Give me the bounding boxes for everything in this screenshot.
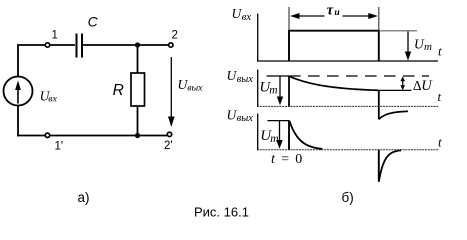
U_out arrow circuit (168, 57, 175, 127)
svg-text:R: R (113, 82, 124, 99)
wf2 vertical axis (257, 70, 259, 108)
svg-text:вых: вых (187, 83, 203, 94)
wf3 recovery curve (379, 150, 401, 181)
wf2 decay curve (289, 76, 379, 90)
resistor R body (131, 73, 145, 106)
wf2 rise edge (288, 76, 290, 106)
capacitor C plates (77, 34, 83, 58)
wf2 recovery curve (379, 111, 408, 119)
wf1 gray top level line (380, 30, 417, 32)
wf2 U_m top bar (267, 75, 290, 77)
svg-text:t: t (438, 43, 442, 58)
wf1 fall extension line (378, 7, 380, 30)
svg-text:вых: вых (237, 113, 253, 124)
svg-text:2': 2' (164, 140, 173, 152)
wf2 U_m arrow (277, 76, 283, 105)
svg-text:U: U (421, 78, 433, 94)
svg-text:1: 1 (52, 30, 58, 42)
node 1' terminal (45, 133, 49, 137)
wire bottom horizontal (17, 135, 167, 137)
svg-text:вых: вых (237, 74, 253, 85)
svg-text:t: t (438, 89, 442, 104)
junction dot top (135, 42, 140, 47)
svg-text:вх: вх (48, 94, 57, 105)
voltage source U1 circle (4, 77, 33, 106)
svg-text:m: m (269, 85, 277, 97)
svg-text:1': 1' (55, 141, 64, 153)
junction dot bottom (135, 133, 140, 138)
svg-text:вх: вх (242, 12, 252, 23)
wf3 horizontal axis dotted (257, 149, 439, 151)
node 1 terminal (45, 43, 49, 47)
wf1 U_m arrow (405, 32, 411, 61)
wf2 dashed peak level line (289, 75, 429, 77)
tau arrow right (343, 13, 378, 19)
wire resistor top lead (137, 45, 139, 73)
tau arrow left (290, 13, 325, 19)
svg-text:m: m (424, 41, 432, 53)
voltage source arrow (15, 81, 21, 104)
wf3 U_m arrow (276, 121, 282, 149)
wire top right horizontal (83, 44, 169, 46)
wf3 rise edge (288, 121, 290, 150)
wf3 U_m top bar (268, 120, 290, 122)
node 2' terminal (167, 132, 171, 136)
wire left vertical bottom (17, 106, 19, 137)
svg-text:2: 2 (172, 30, 178, 42)
svg-text:и: и (334, 8, 339, 18)
wf2 drop edge (378, 90, 380, 119)
wire left vertical top (17, 45, 19, 77)
wire resistor bottom lead (137, 106, 139, 136)
wf1 rise extension line (288, 7, 290, 30)
wf1 horizontal axis (257, 60, 438, 62)
svg-text:t: t (438, 135, 442, 150)
wf3 decay curve (289, 121, 322, 149)
svg-text:б): б) (342, 190, 354, 205)
svg-text:m: m (270, 133, 278, 145)
wf3 vertical axis (257, 114, 259, 151)
node 2 terminal (169, 43, 173, 47)
wf1 vertical axis (257, 14, 259, 62)
svg-text:Рис. 16.1: Рис. 16.1 (194, 205, 249, 220)
svg-text:а): а) (78, 190, 90, 205)
delta U arrow (379, 76, 412, 90)
svg-text:=: = (281, 152, 289, 167)
wf3 drop edge (378, 150, 380, 182)
svg-text:C: C (88, 13, 99, 29)
svg-text:0: 0 (295, 152, 302, 167)
wf1 pulse (289, 31, 379, 61)
wf2 horizontal axis dotted (257, 105, 439, 107)
wire top left horizontal (17, 44, 75, 46)
